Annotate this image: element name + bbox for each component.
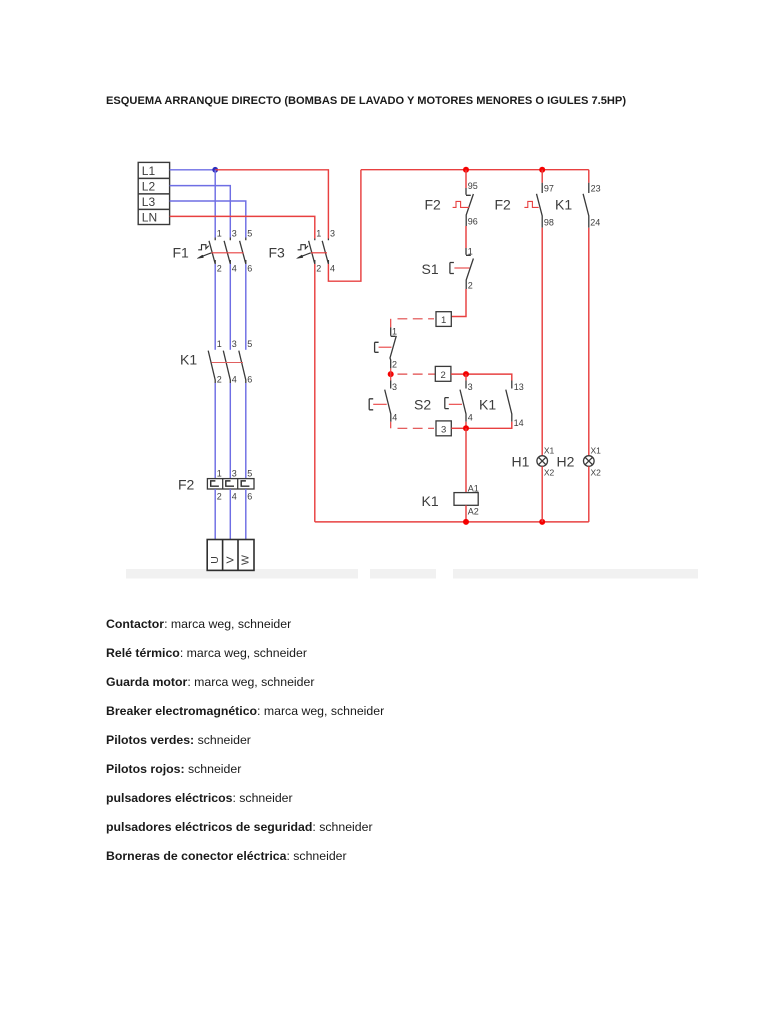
- wire F3 pin4 to control bus: [328, 170, 361, 282]
- wire node3 to junction: [451, 427, 466, 429]
- breaker F3 linkage bar: [311, 252, 327, 254]
- safety NO actuator link: [373, 403, 387, 405]
- stop button S1: [450, 248, 474, 289]
- safety NC actuator link: [379, 346, 392, 348]
- wire control top bus: [361, 169, 589, 171]
- svg-text:S2: S2: [414, 397, 431, 413]
- node L1 junction dot: [212, 167, 218, 173]
- wire dashed link node1 to safety contact: [398, 318, 435, 320]
- wire 14 to node3 rail: [466, 422, 512, 429]
- svg-text:K1: K1: [180, 352, 197, 368]
- svg-text:V: V: [224, 556, 236, 563]
- svg-text:2: 2: [440, 370, 445, 381]
- wire H1 to bottom bus: [541, 466, 543, 522]
- safety pushbutton NC contact 1-2: [375, 327, 397, 368]
- svg-text:F3: F3: [269, 245, 286, 261]
- svg-text:K1: K1: [479, 397, 496, 413]
- pin labels F2 bottom 2 4 6: [217, 492, 253, 502]
- scan artifact band: [126, 569, 698, 579]
- breaker F1: [209, 238, 246, 265]
- svg-text:K1: K1: [422, 493, 439, 509]
- node box 1: [436, 312, 451, 327]
- svg-text:23: 23: [591, 183, 601, 193]
- svg-text:A2: A2: [468, 507, 479, 517]
- svg-text:1: 1: [217, 229, 222, 239]
- safety pushbutton NO contact 3-4: [369, 380, 391, 422]
- svg-text:98: 98: [544, 218, 554, 228]
- svg-text:X2: X2: [544, 468, 555, 478]
- node safety junction: [388, 371, 394, 377]
- motor terminal box U V W: [207, 540, 254, 571]
- svg-text:H1: H1: [512, 454, 530, 470]
- wire L2 to F1 pin 3: [170, 186, 231, 238]
- contactor K1 power contacts: [208, 351, 246, 383]
- start button S2: [445, 380, 466, 422]
- svg-text:24: 24: [590, 218, 600, 228]
- S1 actuator link: [454, 267, 469, 269]
- breaker F1 actuator: [197, 245, 211, 259]
- svg-text:U: U: [209, 556, 221, 564]
- wire bus to F2 95: [465, 170, 467, 188]
- wire F3 pin2 neutral drop to bottom bus: [314, 264, 316, 522]
- node bottom bus junction A: [463, 519, 469, 525]
- svg-text:X2: X2: [591, 468, 602, 478]
- wire 96 to S1: [465, 226, 467, 248]
- svg-text:97: 97: [544, 183, 554, 193]
- svg-text:4: 4: [392, 413, 397, 423]
- svg-text:6: 6: [247, 264, 252, 274]
- svg-text:L2: L2: [142, 180, 156, 194]
- wire 98 to lamp H1: [541, 228, 543, 456]
- node box 3: [436, 421, 451, 436]
- wire bottom neutral bus: [315, 521, 589, 523]
- wire phase verticals K1 to F2: [215, 383, 246, 479]
- contactor K1 linkage bar: [212, 362, 244, 364]
- svg-text:X1: X1: [544, 446, 555, 456]
- svg-text:LN: LN: [142, 210, 157, 224]
- svg-text:6: 6: [247, 492, 252, 502]
- svg-text:4: 4: [468, 413, 473, 423]
- wire LN red to F3 pin 1: [170, 216, 315, 238]
- wire phase verticals F2 to motor terminals: [215, 489, 246, 540]
- svg-text:5: 5: [247, 229, 252, 239]
- svg-text:A1: A1: [468, 484, 479, 494]
- svg-text:2: 2: [392, 360, 397, 370]
- svg-text:2: 2: [217, 492, 222, 502]
- svg-text:3: 3: [441, 424, 446, 435]
- pin labels K1 top 1 3 5: [217, 339, 253, 349]
- wire coil to bottom bus: [465, 505, 467, 522]
- terminal block L1 L2 L3 LN: [138, 162, 169, 224]
- lamp H1: [537, 456, 548, 467]
- svg-text:3: 3: [232, 339, 237, 349]
- wire node2 rail: [451, 374, 512, 380]
- coil K1: [454, 493, 478, 506]
- wire dashed link junction to node 2: [398, 373, 436, 375]
- svg-text:6: 6: [247, 375, 252, 385]
- wire 24 to lamp H2: [588, 228, 590, 456]
- svg-text:F2: F2: [495, 197, 512, 213]
- svg-text:1: 1: [392, 327, 397, 337]
- node bottom bus junction B: [539, 519, 545, 525]
- svg-text:5: 5: [247, 469, 252, 479]
- svg-text:1: 1: [441, 315, 446, 326]
- lamp H2: [584, 456, 595, 467]
- pin labels F3 top 1 3: [316, 229, 335, 239]
- wire S1 to node 1: [451, 289, 466, 317]
- svg-text:K1: K1: [555, 197, 572, 213]
- svg-text:13: 13: [514, 382, 524, 392]
- S2 actuator link: [449, 403, 462, 405]
- svg-text:F2: F2: [178, 477, 195, 493]
- contactor K1 aux contact 13-14: [506, 381, 512, 422]
- thermal relay F2 trip symbol: [453, 201, 470, 207]
- svg-text:1: 1: [217, 469, 222, 479]
- breaker F3: [309, 239, 329, 265]
- svg-text:1: 1: [468, 247, 473, 257]
- node bus junction B: [539, 167, 545, 173]
- svg-text:F2: F2: [425, 197, 442, 213]
- wire H2 to bottom bus: [588, 466, 590, 522]
- svg-text:S1: S1: [422, 261, 439, 277]
- svg-text:2: 2: [217, 264, 222, 274]
- svg-text:4: 4: [232, 375, 237, 385]
- node box 2: [435, 366, 451, 381]
- svg-text:W: W: [240, 555, 252, 565]
- svg-text:H2: H2: [557, 454, 575, 470]
- svg-text:3: 3: [232, 229, 237, 239]
- svg-text:3: 3: [392, 382, 397, 392]
- svg-text:3: 3: [330, 229, 335, 239]
- svg-text:96: 96: [468, 217, 478, 227]
- breaker F1 linkage bar: [211, 252, 243, 254]
- svg-text:3: 3: [232, 469, 237, 479]
- svg-text:4: 4: [330, 264, 335, 274]
- wire L3 to F1 pin 5: [170, 201, 246, 238]
- svg-text:2: 2: [468, 281, 473, 291]
- pin labels F1 top 1 3 5: [217, 229, 253, 239]
- svg-text:4: 4: [232, 264, 237, 274]
- svg-text:1: 1: [217, 339, 222, 349]
- svg-text:3: 3: [468, 382, 473, 392]
- pin labels K1 bottom 2 4 6: [217, 375, 253, 385]
- svg-text:F1: F1: [173, 245, 190, 261]
- svg-text:X1: X1: [591, 446, 602, 456]
- svg-text:14: 14: [514, 418, 524, 428]
- wire L1 blue drop to F1 pin 1: [214, 170, 216, 238]
- thermal relay F2 (power): [207, 479, 254, 489]
- svg-text:2: 2: [316, 264, 321, 274]
- pin labels F3 bottom 2 4: [316, 264, 335, 274]
- node S2 top junction: [463, 371, 469, 377]
- pin labels F2 top 1 3 5: [217, 469, 253, 479]
- wire L1 red feed to F3: [215, 170, 328, 239]
- contactor K1 aux contact 23-24: [583, 183, 589, 228]
- svg-text:L3: L3: [142, 195, 156, 209]
- pin labels F1 bottom 2 4 6: [217, 264, 253, 274]
- thermal contact F2 97-98: [537, 183, 543, 228]
- svg-text:1: 1: [316, 229, 321, 239]
- wire L1 blue to junction: [170, 169, 216, 171]
- svg-text:4: 4: [232, 492, 237, 502]
- wire dashed link safety 4 to node 3: [398, 427, 435, 429]
- thermal relay F2 trip symbol right: [524, 201, 538, 207]
- breaker F3 actuator: [297, 245, 311, 259]
- wire bus to F2 97: [541, 170, 543, 183]
- wire node3 to coil: [465, 428, 467, 492]
- node 3 junction: [463, 425, 469, 431]
- svg-text:5: 5: [247, 339, 252, 349]
- svg-text:2: 2: [217, 375, 222, 385]
- wire phase verticals F1 to K1: [215, 264, 246, 350]
- node bus junction A: [463, 167, 469, 173]
- svg-text:95: 95: [468, 181, 478, 191]
- wire bus corner to K1 23: [588, 170, 590, 183]
- svg-text:L1: L1: [142, 164, 156, 178]
- thermal contact F2 95-96: [466, 188, 473, 226]
